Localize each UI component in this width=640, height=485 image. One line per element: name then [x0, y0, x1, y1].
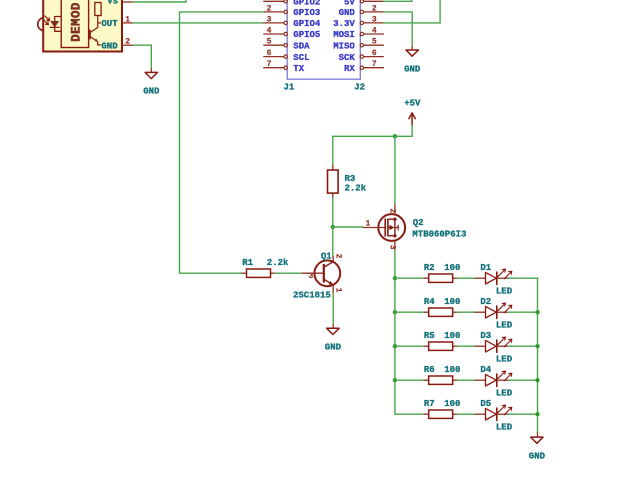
wire Q1 emitter to ground	[332, 294, 334, 325]
svg-text:6: 6	[267, 49, 272, 58]
J1 pin 5 (SDA)	[263, 44, 284, 46]
svg-text:RX: RX	[344, 64, 355, 74]
J2 pin 4 (MOSI)	[363, 33, 384, 35]
svg-text:R2: R2	[424, 263, 435, 273]
wire rail to R2	[395, 277, 424, 279]
svg-text:1: 1	[366, 219, 371, 228]
LED D3	[475, 337, 512, 352]
wire R2 to D1	[458, 277, 475, 279]
junction at Q2 gate node	[331, 225, 335, 229]
J2 pin 2 (GND)	[363, 11, 384, 13]
photodiode inside U1	[50, 17, 61, 32]
LED D2	[475, 303, 512, 318]
J2 pin 3 (3.3V)	[363, 22, 384, 24]
svg-text:J1: J1	[284, 83, 295, 93]
svg-text:OUT: OUT	[101, 19, 118, 29]
svg-text:Q1: Q1	[321, 251, 332, 261]
wire D3 to right rail	[508, 345, 537, 347]
svg-text:2: 2	[125, 38, 130, 47]
svg-text:3: 3	[267, 15, 272, 24]
wire Vs to +5V rail (cut off top)	[133, 0, 186, 2]
svg-text:5: 5	[267, 38, 272, 47]
junction right rail row 5	[535, 412, 539, 416]
junction left rail row 3	[393, 344, 397, 348]
svg-text:SDA: SDA	[293, 41, 310, 51]
svg-text:LED: LED	[496, 320, 513, 330]
wire J2 3.3V up (cut off)	[384, 0, 440, 23]
transistor Q1 (NPN 2SC1815)	[302, 256, 340, 293]
svg-text:GPIO2: GPIO2	[293, 0, 320, 8]
connector J1/J2 body	[287, 0, 360, 79]
J2 pin 1 (5V)	[363, 0, 384, 2]
wire J2 5V up (cut off)	[384, 0, 412, 1]
svg-text:4: 4	[267, 27, 272, 36]
wire R6 to D4	[458, 379, 475, 381]
svg-text:7: 7	[267, 60, 272, 69]
J1 pin 2 (GPIO3)	[263, 11, 284, 13]
svg-text:GND: GND	[101, 41, 118, 51]
DEMOD inner block	[61, 0, 88, 48]
svg-text:D4: D4	[480, 365, 491, 375]
svg-text:LED: LED	[496, 422, 513, 432]
transistor Q2 (P-MOSFET)	[363, 205, 406, 251]
ground symbol at U1	[150, 68, 152, 72]
J2 pin 7 (RX)	[363, 67, 384, 69]
junction right rail row 4	[535, 378, 539, 382]
svg-text:GND: GND	[325, 343, 342, 353]
wire D4 to right rail	[508, 379, 537, 381]
svg-text:SCL: SCL	[293, 53, 309, 63]
wire rail to R4	[395, 311, 424, 313]
J1 pin 6 (SCL)	[263, 56, 284, 58]
resistor R3	[332, 166, 334, 170]
svg-text:R7: R7	[424, 399, 435, 409]
LED D1	[475, 269, 512, 284]
resistor R5 100	[424, 345, 429, 347]
J1 pin 3 (GPIO4)	[263, 22, 284, 24]
svg-text:3: 3	[388, 245, 397, 250]
svg-text:4: 4	[372, 27, 377, 36]
svg-text:7: 7	[372, 60, 377, 69]
J1 pin 1 (GPIO2)	[263, 0, 284, 2]
svg-text:2SC1815: 2SC1815	[293, 290, 331, 300]
LED D5	[475, 405, 512, 420]
wire R7 to D5	[458, 413, 475, 415]
incident light arrows	[45, 16, 50, 21]
svg-text:5: 5	[372, 38, 377, 47]
svg-text:R5: R5	[424, 331, 435, 341]
svg-text:GND: GND	[143, 87, 160, 97]
svg-text:R1: R1	[242, 258, 253, 268]
wire U1 GND down to ground	[133, 45, 151, 68]
wire junction down to Q2 source	[394, 136, 396, 204]
svg-text:D2: D2	[480, 297, 491, 307]
U1 pin 2 (GND)	[122, 44, 133, 46]
svg-text:5V: 5V	[344, 0, 355, 8]
internal transistor of U1	[98, 16, 101, 28]
junction left rail row 1	[393, 276, 397, 280]
ground symbol at J2	[411, 46, 413, 50]
svg-text:LED: LED	[496, 388, 513, 398]
svg-text:+5V: +5V	[404, 99, 421, 109]
wire D2 to right rail	[508, 311, 537, 313]
svg-text:2.2k: 2.2k	[345, 183, 367, 193]
svg-text:LED: LED	[496, 286, 513, 296]
svg-text:LED: LED	[496, 354, 513, 364]
ground symbol at Q1	[332, 324, 334, 328]
svg-text:R4: R4	[424, 297, 435, 307]
wire R4 to D2	[458, 311, 475, 313]
svg-text:3: 3	[309, 272, 314, 281]
ground symbol at LED rail	[537, 432, 539, 437]
svg-text:Vs: Vs	[107, 0, 118, 7]
svg-text:2: 2	[388, 208, 397, 213]
wire junction down to Q1 collector	[332, 227, 334, 256]
svg-text:100: 100	[444, 331, 460, 341]
wire right rail to ground	[537, 278, 539, 432]
svg-text:1: 1	[125, 15, 130, 24]
svg-text:MOSI: MOSI	[333, 30, 355, 40]
J2 pin 6 (SCK)	[363, 56, 384, 58]
svg-text:GPIO3: GPIO3	[293, 8, 320, 18]
svg-text:MTB060P6I3: MTB060P6I3	[412, 229, 466, 239]
lens arc	[38, 18, 43, 31]
wire +5V rail	[333, 125, 412, 165]
svg-text:100: 100	[444, 263, 460, 273]
svg-text:2: 2	[267, 4, 272, 13]
svg-text:D1: D1	[480, 263, 491, 273]
LED D4	[475, 371, 512, 386]
svg-text:SCK: SCK	[339, 53, 356, 63]
svg-text:GND: GND	[404, 64, 421, 74]
junction on +5V rail	[393, 134, 397, 138]
resistor R1	[241, 272, 246, 274]
svg-text:100: 100	[444, 365, 460, 375]
svg-text:R6: R6	[424, 365, 435, 375]
resistor R4 100	[424, 311, 429, 313]
J2 pin 5 (MISO)	[363, 44, 384, 46]
resistor R6 100	[424, 379, 429, 381]
svg-text:100: 100	[444, 399, 460, 409]
resistor R2 100	[424, 277, 429, 279]
U1 pin Vs stub	[122, 1, 133, 3]
wire J2 GND to ground	[384, 12, 412, 46]
svg-text:3.3V: 3.3V	[333, 19, 355, 29]
wire Q2 drain rail down LED rows	[395, 250, 424, 414]
junction right rail row 2	[535, 310, 539, 314]
svg-text:GPIO4: GPIO4	[293, 19, 321, 29]
svg-text:3: 3	[372, 15, 377, 24]
svg-text:J2: J2	[354, 83, 365, 93]
wire U1 OUT to J1 GPIO4	[133, 22, 263, 24]
wire rail to R5	[395, 345, 424, 347]
wire J1 GPIO3 to R1 (long vertical)	[180, 12, 264, 273]
internal resistor of U1	[95, 3, 101, 16]
wire D1 to right rail	[508, 277, 537, 279]
junction left rail row 2	[393, 310, 397, 314]
U1 pin 1 (OUT)	[122, 22, 133, 24]
svg-text:GPIO5: GPIO5	[293, 30, 320, 40]
svg-text:MISO: MISO	[333, 41, 355, 51]
svg-text:1: 1	[334, 288, 343, 293]
wire R3 bottom to junction	[332, 198, 334, 227]
svg-text:2: 2	[334, 254, 343, 259]
svg-text:DEMOD: DEMOD	[70, 2, 84, 42]
wire R5 to D3	[458, 345, 475, 347]
power symbol +5V	[409, 113, 415, 125]
svg-text:GND: GND	[339, 8, 356, 18]
wire junction to Q2 gate	[333, 226, 363, 228]
IR receiver module U1 (DEMOD) body	[43, 0, 122, 52]
svg-text:6: 6	[372, 49, 377, 58]
junction left rail row 4	[393, 378, 397, 382]
svg-text:100: 100	[444, 297, 460, 307]
svg-text:D5: D5	[480, 399, 491, 409]
wire R1 to Q1 base	[275, 272, 302, 274]
wire D5 to right rail	[508, 413, 537, 415]
wire rail to R6	[395, 379, 424, 381]
resistor R7 100	[424, 413, 429, 415]
svg-text:D3: D3	[480, 331, 491, 341]
svg-text:R3: R3	[345, 174, 356, 184]
svg-text:GND: GND	[529, 451, 546, 461]
svg-text:2.2k: 2.2k	[267, 258, 289, 268]
J1 pin 4 (GPIO5)	[263, 33, 284, 35]
junction right rail row 3	[535, 344, 539, 348]
svg-text:Q2: Q2	[413, 218, 424, 228]
svg-text:TX: TX	[293, 64, 304, 74]
svg-text:2: 2	[372, 4, 377, 13]
J1 pin 7 (TX)	[263, 67, 284, 69]
